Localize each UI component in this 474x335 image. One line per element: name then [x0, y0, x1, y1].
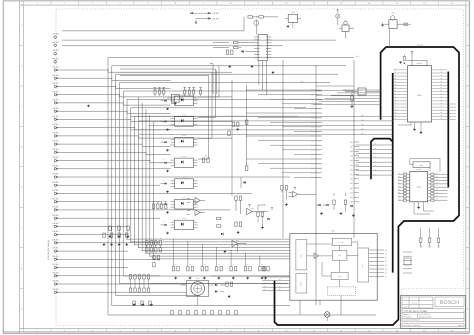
- flyback diodes: [215, 282, 233, 298]
- svg-text:XX-XX: XX-XX: [52, 247, 59, 250]
- bus wires into CPU: [130, 90, 393, 135]
- svg-text:XX-XX: XX-XX: [52, 230, 59, 233]
- svg-text:T5: T5: [374, 165, 376, 167]
- svg-text:XX-XX: XX-XX: [52, 140, 59, 143]
- svg-text:Q0: Q0: [279, 276, 281, 278]
- svg-text:D7: D7: [398, 195, 400, 197]
- svg-text:D2: D2: [398, 179, 400, 181]
- arrow stub: [195, 19, 197, 23]
- svg-text:D1: D1: [398, 176, 400, 178]
- svg-text:K1: K1: [385, 253, 387, 256]
- svg-text:C: C: [188, 308, 189, 310]
- svg-text:A3: A3: [436, 182, 438, 184]
- svg-text:U602: U602: [417, 186, 421, 189]
- comparator op-amp cluster: [202, 156, 268, 253]
- svg-text:XX-XX: XX-XX: [52, 214, 59, 217]
- crystal oscillator cluster: [399, 51, 427, 65]
- node labels: [300, 55, 359, 83]
- svg-text:D3: D3: [398, 182, 400, 184]
- svg-text:A7: A7: [441, 90, 443, 92]
- svg-text:A2: A2: [436, 179, 438, 181]
- svg-text:XX-XX: XX-XX: [52, 206, 59, 209]
- svg-text:D6: D6: [398, 192, 400, 194]
- svg-text:A3: A3: [441, 103, 443, 105]
- relay driver box: [167, 94, 183, 104]
- svg-text:P3: P3: [395, 103, 397, 105]
- title block with BOSCH logo: [401, 296, 466, 329]
- svg-text:N2: N2: [264, 282, 266, 284]
- svg-text:Detect: Detect: [340, 242, 345, 244]
- svg-text:AD0: AD0: [350, 178, 353, 181]
- svg-text:A2: A2: [441, 100, 443, 102]
- svg-text:P0: P0: [395, 118, 397, 120]
- svg-text:AD0: AD0: [350, 141, 353, 144]
- svg-text:Q4: Q4: [279, 289, 281, 291]
- svg-text:A5: A5: [441, 84, 443, 86]
- svg-text:R: R: [160, 238, 161, 240]
- CPU right bus bar: [447, 72, 449, 188]
- svg-text:R: R: [155, 238, 156, 240]
- ECU digital section thick border: [275, 47, 460, 325]
- svg-text:Q1: Q1: [279, 279, 281, 281]
- U700 bottom feeds: [300, 300, 341, 315]
- svg-text:AD4: AD4: [350, 196, 353, 199]
- svg-text:XX-XX: XX-XX: [52, 132, 59, 135]
- svg-text:K2: K2: [385, 256, 387, 259]
- CPU ground stubs: [398, 122, 422, 134]
- comparator pair: [187, 198, 205, 216]
- svg-text:U601: U601: [417, 94, 422, 97]
- supply stub row: [154, 87, 202, 96]
- svg-text:XX-XX: XX-XX: [52, 33, 59, 36]
- svg-text:C: C: [196, 308, 197, 310]
- net label top: [417, 44, 424, 47]
- svg-text:XX-XX: XX-XX: [52, 189, 59, 192]
- svg-text:P0: P0: [395, 93, 397, 95]
- svg-text:A0: A0: [436, 199, 438, 201]
- U101 feed verticals: [259, 61, 267, 96]
- svg-text:N1: N1: [264, 279, 266, 281]
- component value labels: [146, 62, 422, 280]
- svg-text:Q2: Q2: [279, 282, 281, 284]
- idle actuator M1: [181, 281, 215, 306]
- svg-text:AD3: AD3: [350, 191, 353, 194]
- svg-text:Porsche 911 Analog: Porsche 911 Analog: [47, 240, 50, 260]
- svg-text:P3: P3: [395, 78, 397, 80]
- svg-text:T301: T301: [291, 11, 295, 14]
- bias cluster: [257, 205, 273, 229]
- svg-text:XX-XX: XX-XX: [52, 156, 59, 159]
- svg-text:TYP 911 ML3.1 (1988): TYP 911 ML3.1 (1988): [403, 310, 427, 313]
- svg-text:T3: T3: [374, 157, 376, 159]
- svg-text:XX-XX: XX-XX: [52, 263, 59, 266]
- svg-text:XX-XX: XX-XX: [52, 99, 59, 102]
- svg-text:Logic: Logic: [338, 255, 342, 257]
- pin wire ground: [87, 105, 89, 108]
- memory U602 with bus resistors: [398, 159, 447, 215]
- svg-text:D5: D5: [398, 189, 400, 191]
- svg-text:10k: 10k: [237, 194, 240, 196]
- supply filter RC pair: [248, 16, 278, 35]
- svg-text:A1: A1: [441, 72, 443, 74]
- wire corners: [210, 64, 217, 95]
- relay K1: [339, 19, 354, 38]
- divider resistor bank: [129, 241, 161, 306]
- microcontroller U601: [394, 66, 456, 122]
- svg-text:P4: P4: [395, 81, 397, 83]
- transistor T301: [285, 11, 301, 28]
- CPU left bus bar: [392, 73, 394, 273]
- svg-text:C: C: [172, 308, 173, 310]
- svg-text:XX-XX: XX-XX: [52, 82, 59, 85]
- svg-text:T1: T1: [374, 148, 376, 150]
- svg-text:P2: P2: [395, 100, 397, 102]
- svg-text:XX-XX: XX-XX: [52, 238, 59, 241]
- svg-text:AD5: AD5: [350, 201, 353, 204]
- svg-text:K3: K3: [385, 260, 387, 263]
- junction dots: [127, 239, 155, 260]
- svg-text:XX-XX: XX-XX: [52, 90, 59, 93]
- svg-text:T7: T7: [374, 174, 376, 176]
- bias resistor pairs: [152, 202, 167, 209]
- svg-text:K6: K6: [385, 272, 387, 275]
- svg-text:XX-XX: XX-XX: [52, 74, 59, 77]
- optocoupler column U201-U207: [161, 96, 198, 234]
- svg-text:A6: A6: [441, 112, 443, 114]
- svg-text:A4: A4: [441, 106, 443, 108]
- svg-text:XX-XX: XX-XX: [52, 271, 59, 274]
- svg-text:XX-XX: XX-XX: [52, 288, 59, 291]
- svg-text:XX-XX: XX-XX: [52, 57, 59, 60]
- mid divider resistors: [228, 120, 248, 135]
- svg-text:A0: A0: [436, 173, 438, 175]
- svg-text:T605: T605: [391, 12, 395, 15]
- svg-text:T0: T0: [374, 144, 376, 146]
- svg-text:XX-XX: XX-XX: [52, 255, 59, 258]
- svg-text:D0: D0: [398, 199, 400, 201]
- svg-text:A6: A6: [441, 87, 443, 89]
- cap row 2: [103, 233, 128, 246]
- svg-text:K7: K7: [385, 275, 387, 278]
- svg-text:D0: D0: [398, 173, 400, 175]
- svg-text:P0: P0: [395, 69, 397, 71]
- svg-text:A5: A5: [441, 109, 443, 111]
- svg-text:K4: K4: [385, 264, 387, 267]
- driver transistor T605: [381, 12, 411, 48]
- svg-text:XX-XX: XX-XX: [52, 173, 59, 176]
- svg-text:R: R: [146, 238, 147, 240]
- svg-text:P6: P6: [395, 112, 397, 114]
- svg-text:A0: A0: [441, 118, 443, 120]
- svg-text:N4: N4: [264, 289, 266, 291]
- svg-text:A1: A1: [436, 176, 438, 178]
- svg-text:5V VCC: 5V VCC: [417, 44, 424, 47]
- output driver stubs: [403, 252, 412, 273]
- svg-text:P6: P6: [395, 87, 397, 89]
- connector vertical label: [47, 240, 50, 260]
- svg-text:XX-XX: XX-XX: [52, 222, 59, 225]
- svg-text:DB 911: DB 911: [213, 17, 221, 20]
- svg-text:P7: P7: [395, 90, 397, 92]
- svg-text:D4: D4: [398, 186, 400, 188]
- svg-text:A4: A4: [441, 81, 443, 83]
- svg-text:BOSCH: BOSCH: [440, 300, 459, 306]
- svg-text:P7: P7: [395, 115, 397, 117]
- svg-text:XX-XX: XX-XX: [52, 66, 59, 69]
- svg-text:XX-XX: XX-XX: [52, 49, 59, 52]
- sensor input stubs: [353, 144, 393, 177]
- svg-text:A6: A6: [436, 192, 438, 194]
- svg-text:Q3: Q3: [279, 286, 281, 288]
- bus clamp diodes: [316, 193, 355, 217]
- svg-text:DB 917: DB 917: [213, 12, 221, 15]
- svg-text:T6: T6: [374, 170, 376, 172]
- reference arrows: [190, 12, 220, 20]
- svg-text:K0: K0: [385, 249, 387, 252]
- svg-text:A1: A1: [441, 96, 443, 98]
- svg-text:XX-XX: XX-XX: [52, 164, 59, 167]
- knock/ignition processor U700: [262, 234, 387, 301]
- svg-text:P5: P5: [395, 84, 397, 86]
- lamp symbol: [336, 10, 340, 25]
- svg-text:N0: N0: [264, 276, 266, 278]
- lower resistor rows: [133, 301, 237, 315]
- pull-up stubs: [420, 228, 440, 247]
- svg-text:XX-XX: XX-XX: [52, 41, 59, 44]
- svg-text:XX-XX: XX-XX: [52, 197, 59, 200]
- svg-text:A2: A2: [441, 75, 443, 77]
- svg-text:XX-XX: XX-XX: [52, 115, 59, 118]
- diagnostic lamp: [324, 312, 330, 321]
- svg-text:P5: P5: [395, 109, 397, 111]
- svg-text:T2: T2: [374, 152, 376, 154]
- svg-text:A7: A7: [441, 115, 443, 117]
- svg-text:A4: A4: [436, 186, 438, 188]
- svg-text:A0: A0: [441, 93, 443, 95]
- svg-text:XX-XX: XX-XX: [52, 280, 59, 283]
- svg-text:K5: K5: [385, 268, 387, 271]
- op-amp U403: [281, 186, 316, 206]
- bus wire field: [62, 17, 376, 315]
- svg-text:AD2: AD2: [350, 187, 353, 190]
- connector X1 pin column: [52, 33, 62, 294]
- svg-text:XX-XX: XX-XX: [52, 181, 59, 184]
- svg-text:R: R: [151, 238, 152, 240]
- filter cap row: [109, 226, 130, 238]
- svg-text:C: C: [204, 308, 205, 310]
- svg-text:N3: N3: [264, 286, 266, 288]
- svg-text:A0: A0: [441, 69, 443, 71]
- svg-text:C: C: [180, 308, 181, 310]
- svg-text:A7: A7: [436, 195, 438, 197]
- ECU thick border notch: [371, 139, 393, 180]
- bus pin stubs: [246, 86, 359, 204]
- svg-text:AD1: AD1: [350, 182, 353, 185]
- svg-text:app: app: [404, 306, 407, 308]
- svg-text:K1: K1: [344, 19, 346, 22]
- termination resistor row: [172, 239, 269, 280]
- driver transistor Q604: [345, 88, 381, 108]
- svg-text:P1: P1: [395, 96, 397, 98]
- svg-text:A5: A5: [436, 189, 438, 191]
- svg-text:XX-XX: XX-XX: [52, 123, 59, 126]
- svg-text:T4: T4: [374, 161, 376, 163]
- svg-text:XX-XX: XX-XX: [52, 148, 59, 151]
- svg-text:rev: rev: [404, 299, 406, 301]
- svg-text:P4: P4: [395, 106, 397, 108]
- svg-text:P2: P2: [395, 75, 397, 77]
- svg-text:4052: 4052: [420, 164, 424, 167]
- svg-text:P1: P1: [395, 72, 397, 74]
- svg-text:Flag: Flag: [338, 276, 341, 278]
- input stage IC U101 cluster: [213, 34, 274, 73]
- svg-text:A3: A3: [441, 78, 443, 80]
- svg-text:XX-XX: XX-XX: [52, 107, 59, 110]
